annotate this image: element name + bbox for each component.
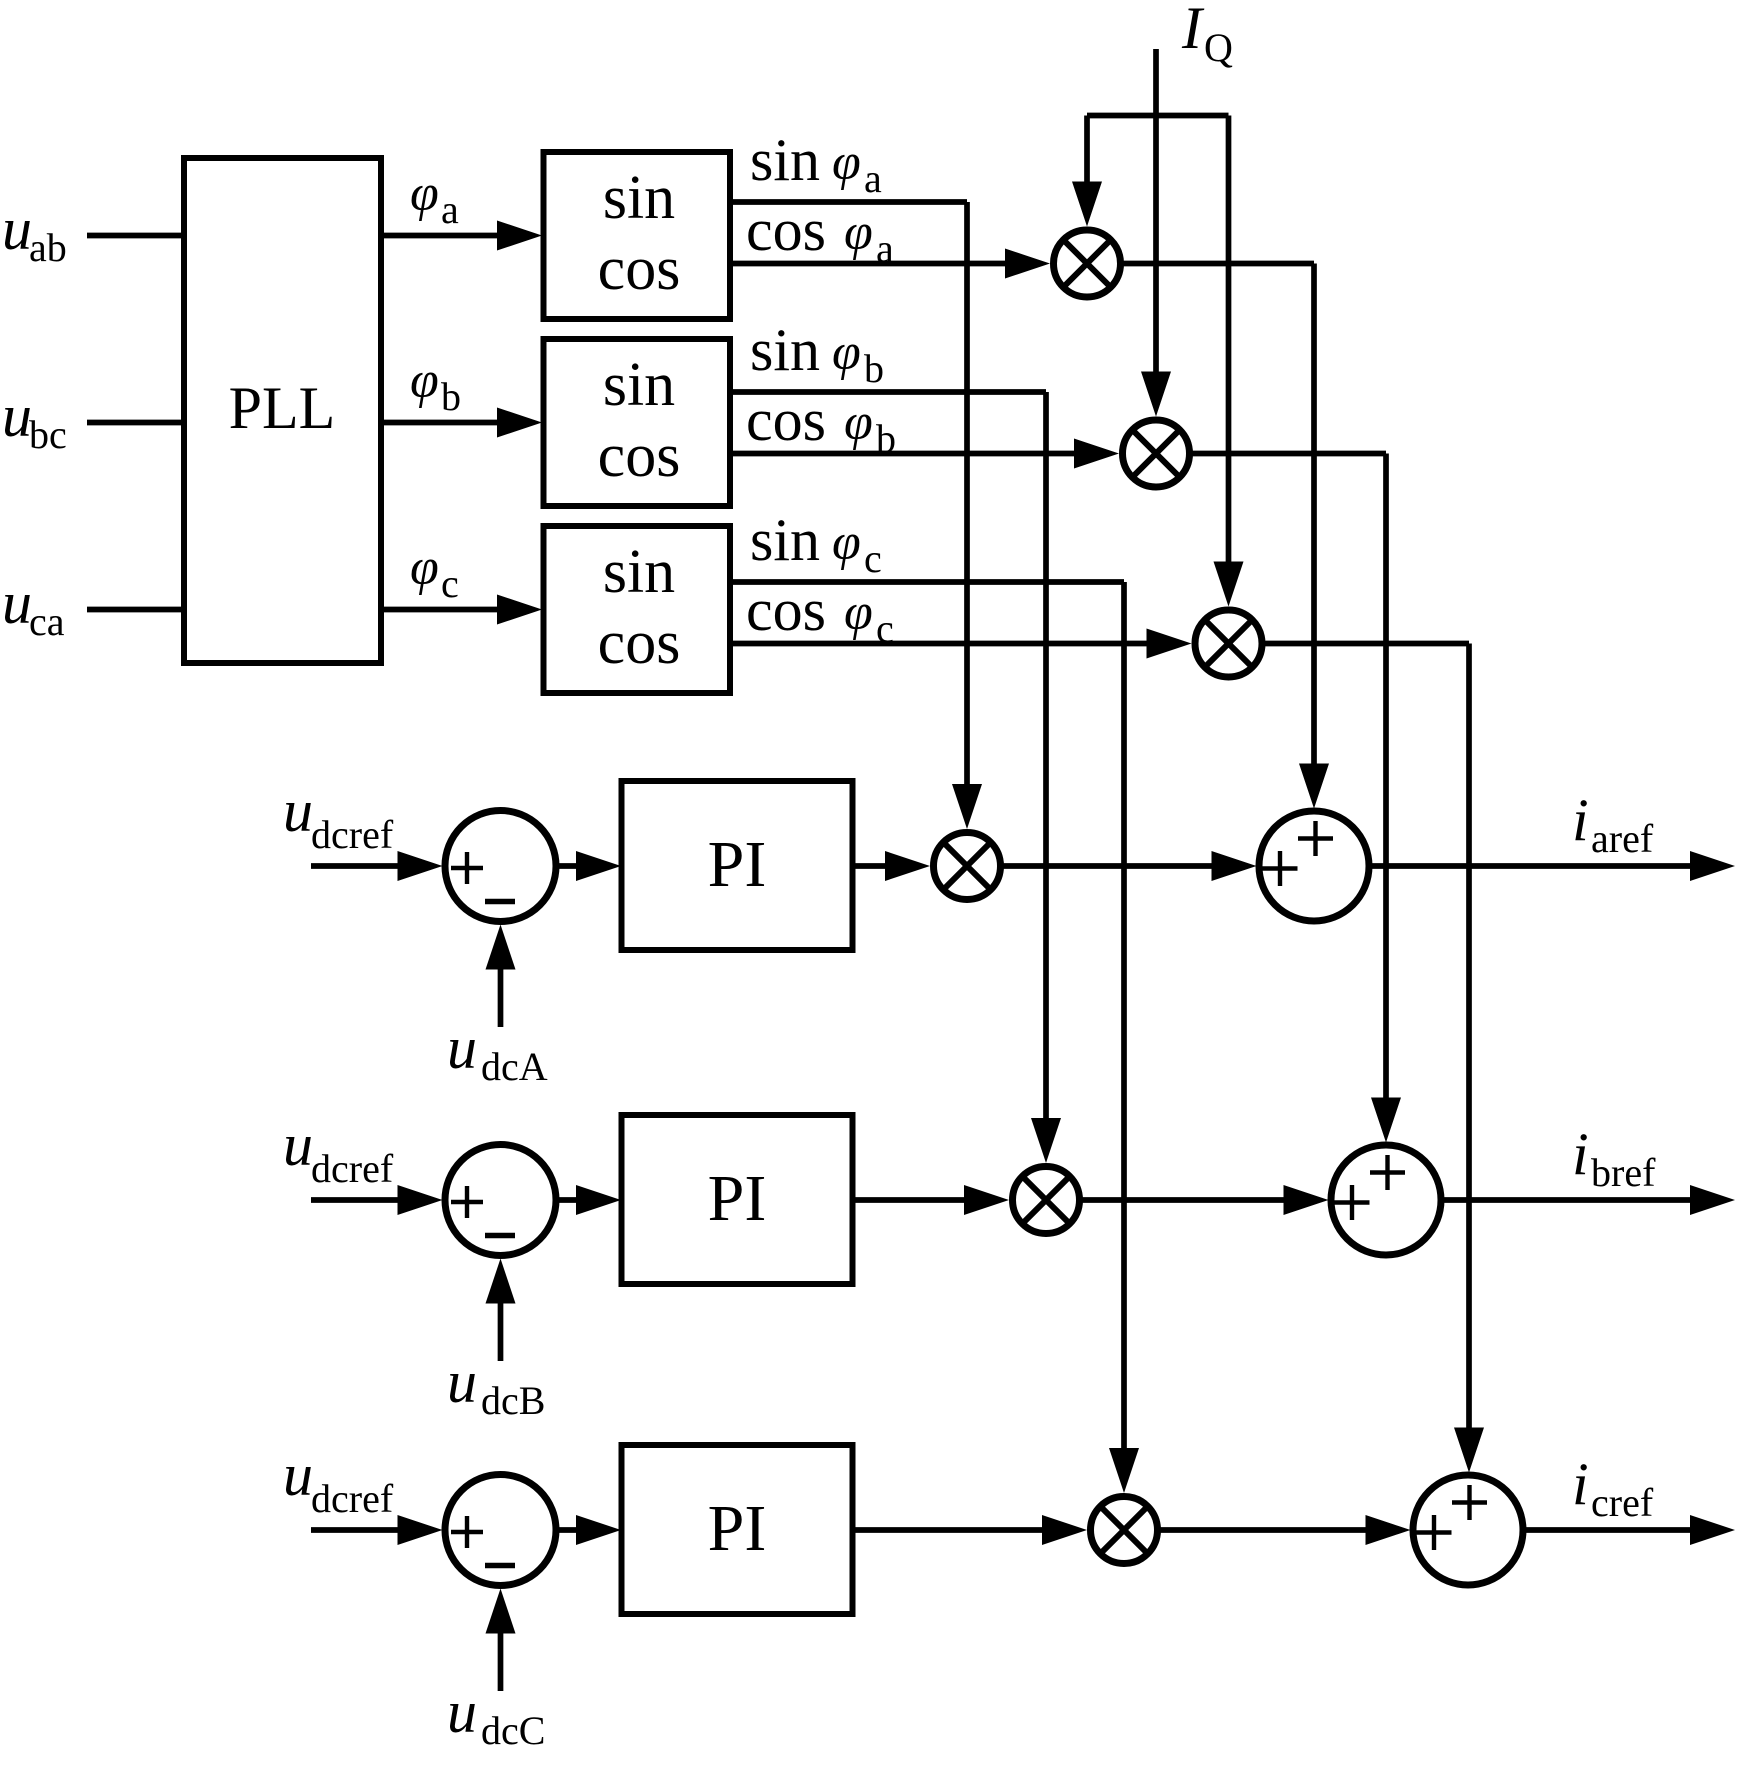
svg-text:PI: PI: [708, 1492, 767, 1565]
svg-text:a: a: [441, 187, 459, 232]
wire sin phi_b vertical to M5: [1043, 392, 1049, 1133]
multiplier M3: [1195, 610, 1262, 677]
block PI A: [622, 781, 853, 950]
svg-text:φ: φ: [844, 394, 873, 451]
wire M3 out horizontal: [1263, 641, 1470, 647]
multiplier M5: [1013, 1167, 1080, 1234]
node u_ca input label: [2, 570, 65, 644]
svg-text:aref: aref: [1591, 816, 1654, 861]
svg-text:φ: φ: [844, 584, 873, 641]
svg-text:u: u: [2, 570, 32, 636]
block sincos U1: [544, 152, 731, 319]
wire sin phi_a horizontal: [730, 199, 967, 205]
svg-text:I: I: [1181, 0, 1205, 61]
svg-text:ca: ca: [29, 599, 65, 644]
svg-text:φ: φ: [832, 134, 861, 191]
node u_bc input label: [2, 383, 67, 457]
svg-text:sin: sin: [603, 351, 675, 419]
svg-text:Q: Q: [1204, 25, 1233, 70]
wire I_Q branch left to M1: [1084, 116, 1090, 197]
multiplier M2: [1123, 420, 1190, 487]
svg-text:PI: PI: [708, 1162, 767, 1235]
wire u_dcA to sum A: [498, 955, 504, 1028]
wire u_dcref to sum A: [311, 863, 413, 869]
wire PI B to M5: [853, 1197, 980, 1203]
svg-text:cos: cos: [598, 422, 681, 490]
svg-text:dcC: dcC: [481, 1708, 545, 1753]
wire sin phi_a vertical to M4: [964, 202, 970, 799]
node u_dcref label row B: [283, 1112, 394, 1191]
multiplier M1: [1054, 230, 1121, 297]
block sincos U3: [544, 526, 731, 693]
wire phi_c PLL to sincos3: [381, 607, 512, 613]
svg-text:u: u: [447, 1015, 477, 1081]
node i_bref label: [1572, 1121, 1656, 1195]
svg-text:b: b: [864, 346, 884, 391]
svg-text:u: u: [447, 1679, 477, 1745]
wire u_ca to PLL: [87, 607, 184, 613]
wire M1 out vertical to S1: [1311, 264, 1317, 779]
wire PI C to M6: [853, 1527, 1058, 1533]
svg-text:u: u: [283, 1442, 313, 1508]
wire u_ab to PLL: [87, 233, 184, 239]
wire u_bc to PLL: [87, 420, 184, 426]
svg-text:PI: PI: [708, 828, 767, 901]
node u_dcC label: [447, 1679, 545, 1753]
svg-text:ab: ab: [29, 225, 67, 270]
wire I_Q vertical to M2: [1153, 49, 1159, 387]
svg-text:sin: sin: [750, 507, 820, 573]
node u_dcref label row C: [283, 1442, 394, 1521]
node sin phi_b label: [750, 317, 884, 391]
svg-text:u: u: [283, 1112, 313, 1178]
node u_dcref label row A: [283, 778, 394, 857]
summator S1: [1259, 811, 1369, 921]
summator S2: [1331, 1145, 1441, 1255]
node cos phi_b label: [746, 387, 896, 461]
wire sum B to PI B: [559, 1197, 592, 1203]
node phi_a label: [410, 165, 459, 232]
multiplier M6: [1091, 1497, 1158, 1564]
node cos phi_c label: [746, 577, 894, 651]
wire u_dcref to sum C: [311, 1527, 413, 1533]
svg-text:sin: sin: [750, 127, 820, 193]
block PI B: [622, 1115, 853, 1284]
svg-text:dcA: dcA: [481, 1044, 548, 1089]
svg-text:cos: cos: [598, 235, 681, 303]
wire I_Q branch horizontal: [1087, 113, 1229, 119]
svg-text:cos: cos: [746, 577, 826, 643]
block PI C: [622, 1445, 853, 1614]
wire sum A to PI A: [559, 863, 592, 869]
node phi_b label: [410, 352, 461, 419]
svg-text:u: u: [2, 383, 32, 449]
svg-text:sin: sin: [750, 317, 820, 383]
wire i_bref output: [1441, 1197, 1706, 1203]
svg-text:c: c: [441, 561, 459, 606]
svg-text:b: b: [441, 374, 461, 419]
wire u_dcC to sum C: [498, 1619, 504, 1692]
svg-text:φ: φ: [410, 165, 439, 222]
wire M1 out horizontal: [1121, 261, 1314, 267]
svg-text:cos: cos: [746, 197, 826, 263]
svg-text:sin: sin: [603, 164, 675, 232]
svg-text:bref: bref: [1591, 1150, 1656, 1195]
wire I_Q branch right to M3: [1226, 116, 1232, 577]
node u_dcB label: [447, 1349, 545, 1423]
summing junction SA: [445, 811, 556, 922]
node i_aref label: [1572, 787, 1654, 861]
wire cos phi_b to M2: [730, 451, 1089, 457]
wire PI A to M4: [853, 863, 901, 869]
svg-text:φ: φ: [844, 204, 873, 261]
node I_Q label: [1181, 0, 1233, 70]
node phi_c label: [410, 539, 459, 606]
wire cos phi_a to M1: [730, 261, 1020, 267]
node i_cref label: [1572, 1451, 1654, 1525]
svg-text:c: c: [864, 536, 882, 581]
wire u_dcref to sum B: [311, 1197, 413, 1203]
wire sin phi_b horizontal: [730, 389, 1046, 395]
multiplier M4: [934, 833, 1001, 900]
summator S3: [1413, 1475, 1523, 1585]
wire u_dcB to sum B: [498, 1289, 504, 1362]
svg-text:dcB: dcB: [481, 1378, 545, 1423]
svg-text:sin: sin: [603, 538, 675, 606]
node sin phi_c label: [750, 507, 882, 581]
wire i_aref output: [1369, 863, 1706, 869]
svg-text:cref: cref: [1591, 1480, 1654, 1525]
svg-text:u: u: [283, 778, 313, 844]
node sin phi_a label: [750, 127, 882, 201]
wire sin phi_c vertical to M6: [1121, 582, 1127, 1463]
summing junction SB: [445, 1145, 556, 1256]
wire M2 out vertical to S2: [1383, 454, 1389, 1113]
summing junction SC: [445, 1475, 556, 1586]
svg-text:u: u: [447, 1349, 477, 1415]
wire cos phi_c to M3: [730, 641, 1162, 647]
svg-text:dcref: dcref: [311, 812, 394, 857]
svg-text:bc: bc: [29, 412, 67, 457]
wire sum C to PI C: [559, 1527, 592, 1533]
svg-text:i: i: [1572, 1451, 1589, 1517]
block PLL: [184, 158, 381, 663]
svg-text:φ: φ: [832, 324, 861, 381]
svg-text:PLL: PLL: [229, 375, 336, 441]
block sincos U2: [544, 339, 731, 506]
wire M2 out horizontal: [1190, 451, 1386, 457]
svg-text:cos: cos: [746, 387, 826, 453]
wire M6 to S3: [1158, 1527, 1381, 1533]
wire phi_b PLL to sincos2: [381, 420, 512, 426]
node cos phi_a label: [746, 197, 894, 271]
wire M3 out vertical to S3: [1466, 644, 1472, 1443]
svg-text:i: i: [1572, 787, 1589, 853]
svg-text:cos: cos: [598, 609, 681, 677]
wire phi_a PLL to sincos1: [381, 233, 512, 239]
wire M4 to S1: [1001, 863, 1227, 869]
svg-text:φ: φ: [832, 514, 861, 571]
svg-text:u: u: [2, 196, 32, 262]
wire sin phi_c horizontal: [730, 579, 1124, 585]
svg-text:dcref: dcref: [311, 1476, 394, 1521]
node u_ab input label: [2, 196, 67, 270]
svg-text:dcref: dcref: [311, 1146, 394, 1191]
wire i_cref output: [1523, 1527, 1706, 1533]
node u_dcA label: [447, 1015, 548, 1089]
svg-text:φ: φ: [410, 352, 439, 409]
svg-text:a: a: [864, 156, 882, 201]
svg-text:φ: φ: [410, 539, 439, 596]
wire M5 to S2: [1080, 1197, 1299, 1203]
svg-text:i: i: [1572, 1121, 1589, 1187]
